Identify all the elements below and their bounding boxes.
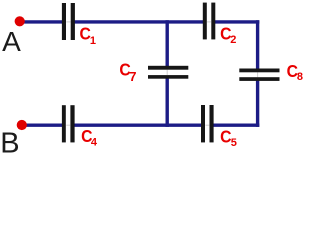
capacitor C5 (201, 105, 214, 142)
svg-text:1: 1 (90, 35, 96, 47)
svg-text:8: 8 (297, 71, 303, 83)
capacitor C4 (62, 105, 75, 142)
label C7 (119, 60, 136, 84)
label C1 (80, 24, 97, 47)
node B label (0, 127, 19, 159)
label C4 (81, 126, 98, 148)
svg-text:2: 2 (230, 34, 236, 46)
wire C1 to C2 (top middle) (75, 20, 204, 23)
capacitor C8 (239, 69, 279, 81)
wire C4 to C5 (bottom middle) (74, 123, 201, 126)
label C8 (287, 61, 303, 83)
node A terminal dot (15, 16, 25, 26)
node B terminal dot (17, 120, 27, 130)
wire B to C4 (bottom left) (21, 123, 62, 126)
svg-text:5: 5 (231, 137, 237, 149)
svg-text:B: B (0, 127, 19, 159)
wire C2 to top-right corner (215, 20, 259, 23)
svg-text:A: A (2, 26, 21, 57)
capacitor C7 (148, 66, 188, 79)
wire right vertical upper (corner to C8) (256, 20, 259, 69)
wire middle vertical lower (C7 to bottom T junction) (165, 78, 168, 127)
node A label (2, 26, 21, 57)
capacitor C1 (62, 3, 75, 40)
wire middle vertical upper (top T junction to C7) (165, 20, 168, 66)
svg-text:4: 4 (91, 137, 98, 149)
svg-text:7: 7 (129, 69, 136, 84)
capacitor C2 (203, 3, 216, 40)
label C2 (220, 24, 236, 47)
wire C5 to bottom-right corner (213, 123, 259, 126)
label C5 (220, 127, 237, 149)
wire A to C1 (top left) (19, 20, 63, 23)
wire right vertical lower (C8 to bottom corner) (256, 81, 259, 127)
